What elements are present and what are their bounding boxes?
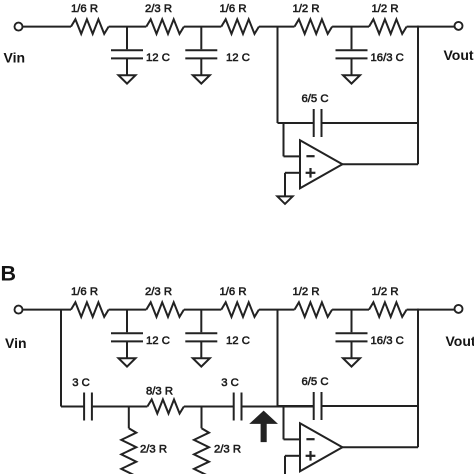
svg-text:1/6 R: 1/6 R xyxy=(219,3,246,15)
svg-text:1/6 R: 1/6 R xyxy=(71,3,98,15)
svg-text:Vout: Vout xyxy=(446,333,474,349)
svg-text:1/2 R: 1/2 R xyxy=(371,286,398,298)
svg-text:2/3 R: 2/3 R xyxy=(140,443,167,455)
svg-text:1/2 R: 1/2 R xyxy=(371,3,398,15)
svg-text:3 C: 3 C xyxy=(221,377,239,389)
svg-text:12 C: 12 C xyxy=(146,52,170,64)
svg-text:2/3 R: 2/3 R xyxy=(145,286,172,298)
svg-text:2/3 R: 2/3 R xyxy=(214,443,241,455)
svg-text:8/3 R: 8/3 R xyxy=(146,385,173,397)
svg-text:12 C: 12 C xyxy=(226,335,250,347)
svg-text:1/6 R: 1/6 R xyxy=(219,286,246,298)
svg-text:12 C: 12 C xyxy=(146,335,170,347)
svg-text:12 C: 12 C xyxy=(226,52,250,64)
svg-text:2/3 R: 2/3 R xyxy=(145,3,172,15)
svg-text:B: B xyxy=(1,262,17,286)
svg-text:Vout: Vout xyxy=(444,47,474,63)
svg-text:1/6 R: 1/6 R xyxy=(71,286,98,298)
svg-text:16/3 C: 16/3 C xyxy=(371,335,404,347)
svg-text:6/5 C: 6/5 C xyxy=(301,93,328,105)
svg-text:1/2 R: 1/2 R xyxy=(292,3,319,15)
svg-text:16/3 C: 16/3 C xyxy=(371,52,404,64)
svg-text:Vin: Vin xyxy=(4,50,26,66)
svg-text:Vin: Vin xyxy=(5,335,27,351)
svg-text:3 C: 3 C xyxy=(72,377,90,389)
svg-text:1/2 R: 1/2 R xyxy=(292,286,319,298)
svg-text:6/5 C: 6/5 C xyxy=(301,376,328,388)
